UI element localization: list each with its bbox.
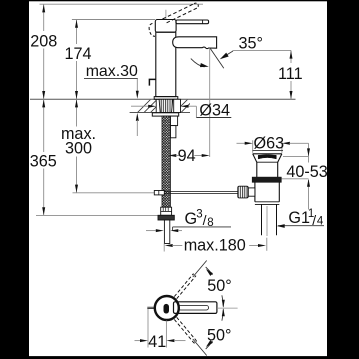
svg-text:35°: 35° bbox=[239, 35, 263, 53]
svg-text:Ø34: Ø34 bbox=[199, 102, 230, 120]
svg-text:max.180: max.180 bbox=[184, 236, 246, 254]
svg-text:50°: 50° bbox=[207, 277, 231, 295]
svg-text:G: G bbox=[185, 210, 198, 228]
svg-text:94: 94 bbox=[178, 147, 196, 165]
svg-text:max.30: max.30 bbox=[86, 63, 138, 80]
svg-text:365: 365 bbox=[30, 152, 57, 170]
svg-text:208: 208 bbox=[30, 32, 57, 50]
svg-text:Ø63: Ø63 bbox=[254, 135, 285, 153]
svg-text:/: / bbox=[203, 212, 207, 228]
svg-text:300: 300 bbox=[65, 140, 92, 158]
svg-text:111: 111 bbox=[278, 65, 303, 83]
svg-text:G1: G1 bbox=[288, 209, 310, 227]
svg-text:41: 41 bbox=[148, 333, 166, 351]
svg-text:40-53: 40-53 bbox=[286, 163, 327, 181]
svg-text:50°: 50° bbox=[207, 326, 231, 344]
svg-text:174: 174 bbox=[64, 45, 91, 63]
